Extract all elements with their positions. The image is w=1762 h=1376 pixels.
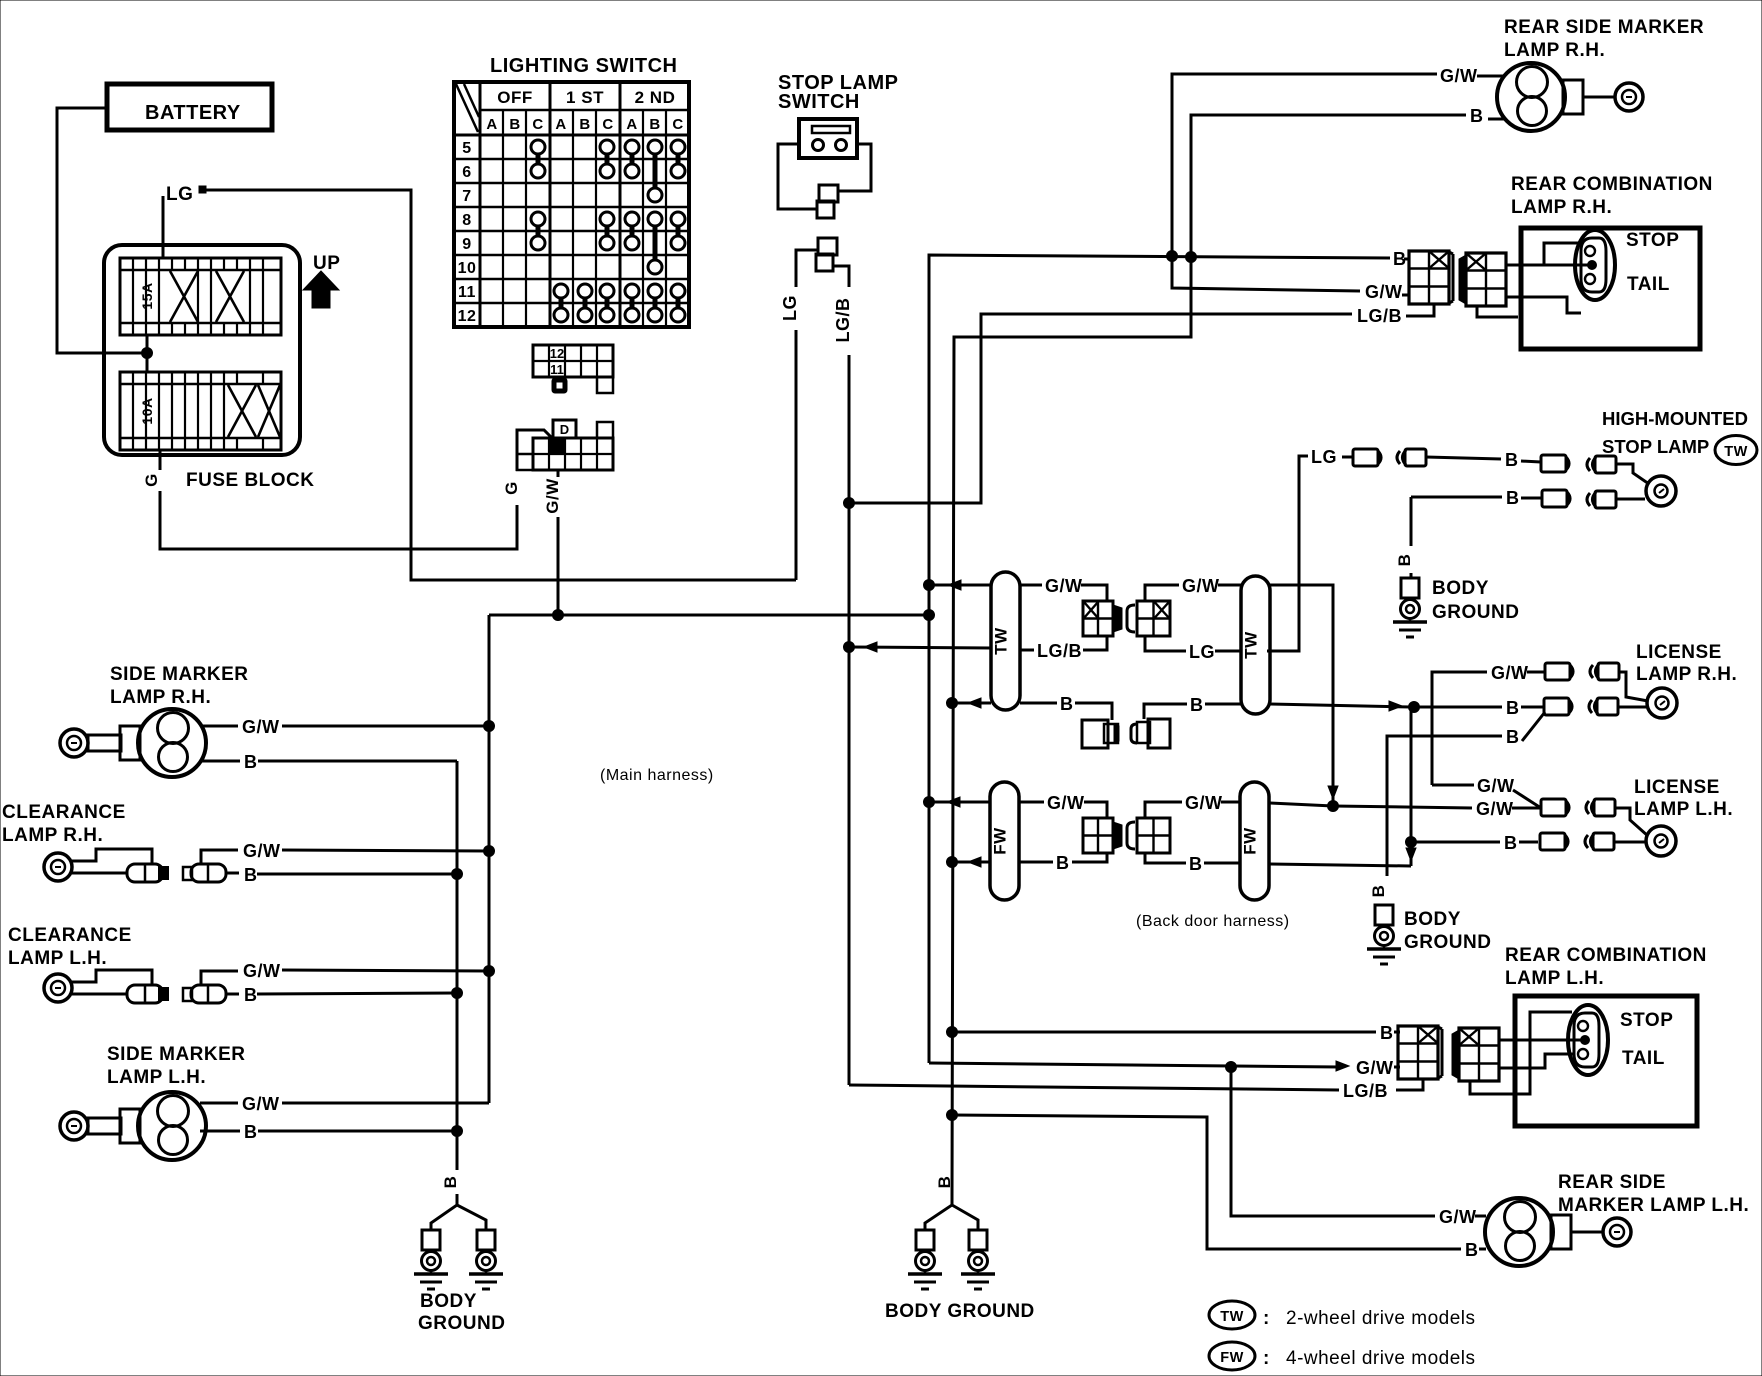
svg-text:G/W: G/W xyxy=(1477,776,1515,796)
svg-text:G/W: G/W xyxy=(1356,1058,1394,1078)
clearance lamp RH title xyxy=(2,802,126,846)
svg-text:2 ND: 2 ND xyxy=(635,88,676,107)
wire stop lamp switch left xyxy=(799,144,803,146)
svg-text:A: A xyxy=(626,116,637,133)
wire G/W to rear side marker LH xyxy=(1231,1067,1486,1227)
wire B license RH xyxy=(1414,698,1543,718)
junction G/W side marker RH xyxy=(484,721,495,732)
svg-text:12: 12 xyxy=(458,308,477,325)
TW harness connector pill 2 xyxy=(1241,576,1270,714)
svg-text:G/W: G/W xyxy=(1439,1207,1477,1227)
svg-text:G/W: G/W xyxy=(1185,793,1223,813)
TW harness connector pill 1 xyxy=(991,572,1020,710)
svg-text:8: 8 xyxy=(462,212,471,229)
svg-text:B: B xyxy=(1506,698,1520,718)
wire B FW block right to pill2 xyxy=(1145,853,1240,874)
svg-text:12: 12 xyxy=(550,346,564,361)
svg-text:B: B xyxy=(1470,106,1484,126)
wire G/W to FW pill1 xyxy=(929,797,990,807)
connector pair license RH B xyxy=(1544,698,1618,715)
svg-text:B: B xyxy=(1380,1023,1394,1043)
wire LG stop lamp xyxy=(780,250,818,580)
svg-text:C: C xyxy=(532,116,543,133)
svg-text:10: 10 xyxy=(458,260,477,277)
rear comb LH bulb socket xyxy=(1568,1005,1608,1075)
svg-text:STOP: STOP xyxy=(1626,230,1679,251)
rear comb LH internal wires xyxy=(1470,1012,1590,1094)
svg-text:B: B xyxy=(1190,695,1204,715)
wire G/W rear side marker RH xyxy=(1172,66,1505,291)
rear side marker lamp LH L9 xyxy=(1485,1198,1631,1266)
wire G/W split license RH xyxy=(1432,663,1544,808)
fuse row 10A xyxy=(120,372,281,450)
side marker lamp LH title xyxy=(107,1044,246,1088)
junction G/W clearance LH xyxy=(484,966,495,977)
svg-text:B: B xyxy=(1060,694,1074,714)
svg-text:LAMP R.H.: LAMP R.H. xyxy=(1636,664,1737,685)
wire B into comb RH block xyxy=(1404,258,1409,261)
svg-text:11: 11 xyxy=(550,362,564,377)
wire G/W to license lamps xyxy=(1333,799,1540,819)
wire LG/B stop lamp xyxy=(833,266,853,1085)
svg-text:B: B xyxy=(1504,833,1518,853)
left body ground bus B xyxy=(431,761,486,1231)
wire B TW pill1 to connector xyxy=(1020,694,1112,720)
svg-text:C: C xyxy=(602,116,613,133)
svg-text:G/W: G/W xyxy=(243,841,281,861)
wire B side marker RH xyxy=(200,752,457,772)
rear side marker LH title xyxy=(1558,1172,1749,1216)
junction B FW xyxy=(947,857,958,868)
svg-text:FW: FW xyxy=(991,827,1010,855)
wire high mount row2 to lamp xyxy=(1616,498,1645,501)
rear comb RH internal wires xyxy=(1477,243,1597,317)
svg-text:LAMP R.H.: LAMP R.H. xyxy=(1511,197,1612,218)
wire B FW pill1 to block xyxy=(1019,853,1107,873)
svg-text:LAMP L.H.: LAMP L.H. xyxy=(1634,799,1733,820)
body ground right upper G2 xyxy=(1393,578,1427,637)
svg-text:LAMP R.H.: LAMP R.H. xyxy=(110,687,211,708)
wire G/W FW block right to pill2 xyxy=(1145,793,1240,818)
svg-text:TW: TW xyxy=(992,627,1011,655)
svg-text:BODY: BODY xyxy=(1432,578,1489,599)
svg-text:LG: LG xyxy=(780,295,800,321)
junction G/W license xyxy=(1328,801,1339,812)
svg-text:SIDE MARKER: SIDE MARKER xyxy=(107,1044,246,1065)
wire G/W clearance LH xyxy=(243,961,489,981)
svg-text:G/W: G/W xyxy=(543,478,562,514)
license lamp LH title xyxy=(1634,777,1733,820)
stop lamp switch S1 xyxy=(799,119,857,158)
svg-text:B: B xyxy=(1465,1240,1479,1260)
wire G/W bus to rear comb LH xyxy=(929,1058,1400,1078)
svg-text:LAMP L.H.: LAMP L.H. xyxy=(107,1067,206,1088)
svg-text:B: B xyxy=(1506,488,1520,508)
clearance lamp LH title xyxy=(8,925,132,969)
wire B high mounted stop lamp row1 xyxy=(1426,450,1541,470)
TW connector block left xyxy=(1083,601,1122,636)
fuse row 15A xyxy=(120,258,281,335)
svg-text:G/W: G/W xyxy=(1047,793,1085,813)
svg-text:REAR COMBINATION: REAR COMBINATION xyxy=(1505,945,1707,966)
wire stop lamp switch right xyxy=(838,144,871,191)
svg-text:B: B xyxy=(509,116,520,133)
svg-text:LICENSE: LICENSE xyxy=(1634,777,1720,798)
svg-text:B: B xyxy=(244,985,258,1005)
wire B to TW pill1 xyxy=(952,698,991,708)
svg-text:CLEARANCE: CLEARANCE xyxy=(2,802,126,823)
wire B TW pill2 to license RH xyxy=(1270,701,1411,711)
svg-text:LG/B: LG/B xyxy=(1037,641,1082,661)
connector pair license RH GW xyxy=(1545,663,1619,680)
svg-text:SWITCH: SWITCH xyxy=(778,91,860,113)
wire fuse 15A to 10A xyxy=(146,335,149,372)
wire G/W clearance RH xyxy=(243,841,489,861)
connector grid lighting switch xyxy=(517,420,613,470)
svg-text:10A: 10A xyxy=(139,397,155,424)
wire LG TW block right to pill2 xyxy=(1145,636,1241,662)
svg-text:A: A xyxy=(555,116,566,133)
svg-text:LICENSE: LICENSE xyxy=(1636,642,1722,663)
junction G/W clearance RH xyxy=(484,846,495,857)
lighting switch table U2 xyxy=(454,82,689,327)
legend TW xyxy=(1209,1301,1476,1329)
wire license RH GW to lamp xyxy=(1618,672,1648,701)
junction B license LH xyxy=(1406,837,1417,848)
side marker lamp LH L4 xyxy=(60,1092,206,1160)
wire LG/B into block RH xyxy=(1406,304,1434,316)
wire B to body ground right upper xyxy=(1395,497,1414,578)
junction LG/B to TW connector xyxy=(844,642,855,653)
svg-text:GROUND: GROUND xyxy=(1432,602,1519,623)
wire LG/B riser to rear comb RH xyxy=(849,314,1352,503)
svg-text:B: B xyxy=(244,1122,258,1142)
svg-text:G/W: G/W xyxy=(1476,799,1514,819)
license lamp LH L8 xyxy=(1646,826,1676,856)
center body ground bus xyxy=(925,1176,978,1231)
wire G/W TW pill2 to junction xyxy=(1270,585,1338,806)
connector pair LG high mount xyxy=(1353,449,1426,466)
rear comb RH bulb socket xyxy=(1575,230,1615,300)
svg-text:BODY GROUND: BODY GROUND xyxy=(885,1301,1035,1322)
wire LG from fuse block xyxy=(163,184,796,580)
license lamp RH title xyxy=(1636,642,1737,685)
svg-text:B: B xyxy=(1505,450,1519,470)
svg-text:LAMP R.H.: LAMP R.H. xyxy=(2,825,103,846)
svg-text:TW: TW xyxy=(1220,1309,1244,1325)
svg-text:G/W: G/W xyxy=(1045,576,1083,596)
wire B license LH xyxy=(1411,833,1538,853)
wire G/W to TW pill1 xyxy=(929,580,991,590)
battery B1 xyxy=(107,84,272,130)
rear combination lamp LH title xyxy=(1505,945,1707,989)
wire B to rear side marker LH xyxy=(952,1115,1486,1260)
svg-text:G/W: G/W xyxy=(242,717,280,737)
junction G/W rear side marker LH xyxy=(1226,1062,1237,1073)
svg-text:6: 6 xyxy=(462,164,471,181)
svg-text:G/W: G/W xyxy=(1182,576,1220,596)
junction B rear comb LH xyxy=(947,1027,958,1038)
svg-text:FW: FW xyxy=(1220,1350,1244,1366)
wire B high mount row2 xyxy=(1411,488,1542,508)
svg-text:STOP: STOP xyxy=(1620,1010,1673,1031)
G/W bus riser xyxy=(929,255,1390,1063)
high mounted stop lamp title xyxy=(1602,408,1757,465)
svg-text:REAR SIDE: REAR SIDE xyxy=(1558,1172,1666,1193)
svg-text:LAMP L.H.: LAMP L.H. xyxy=(8,948,107,969)
svg-text:REAR COMBINATION: REAR COMBINATION xyxy=(1511,174,1713,195)
svg-text:HIGH-MOUNTED: HIGH-MOUNTED xyxy=(1602,408,1748,429)
FW harness connector pill 1 xyxy=(990,782,1019,900)
high mounted stop lamp L6 xyxy=(1646,476,1676,506)
body ground right upper label xyxy=(1432,578,1519,623)
svg-text:G/W: G/W xyxy=(1491,663,1529,683)
body ground left label xyxy=(418,1291,505,1334)
svg-text:LG/B: LG/B xyxy=(1343,1081,1388,1101)
main G/W bus junction xyxy=(553,610,564,621)
node G fuse output xyxy=(142,450,517,549)
svg-text:CLEARANCE: CLEARANCE xyxy=(8,925,132,946)
rear combination lamp LH box xyxy=(1515,996,1697,1126)
svg-text:LG/B: LG/B xyxy=(833,298,853,343)
clearance lamp LH L3 xyxy=(44,970,239,1003)
svg-text:G/W: G/W xyxy=(1440,66,1478,86)
clearance lamp RH L2 xyxy=(44,849,239,882)
svg-text:B: B xyxy=(244,752,258,772)
connector pair stop lamp switch xyxy=(817,185,838,218)
wire LG to high mounted stop lamp xyxy=(1267,447,1353,651)
body ground center G4 xyxy=(908,1230,995,1289)
body ground left G1 xyxy=(414,1230,503,1289)
junction B clearance LH xyxy=(452,988,463,999)
svg-text:STOP LAMP: STOP LAMP xyxy=(1602,436,1709,457)
svg-text:(Main harness): (Main harness) xyxy=(600,767,714,784)
svg-text:G/W: G/W xyxy=(1365,282,1403,302)
TW connector block right xyxy=(1127,601,1170,636)
wire B2 license RH to ground xyxy=(1369,712,1545,897)
svg-text:LG/B: LG/B xyxy=(1357,306,1402,326)
wire G/W side marker RH xyxy=(200,717,489,737)
TW B connector left xyxy=(1082,720,1119,748)
stop lamp switch title xyxy=(778,72,898,113)
wire license LH B to lamp xyxy=(1613,841,1646,844)
license lamp RH L7 xyxy=(1647,688,1677,718)
wire G/W FW pill1 to block xyxy=(1019,793,1107,818)
wire G to switch connector xyxy=(517,430,554,471)
wire G/W into comb RH block xyxy=(1402,294,1409,297)
rear comb RH connector blocks xyxy=(1409,251,1506,306)
svg-text:LG: LG xyxy=(1189,642,1215,662)
svg-text:4-wheel drive models: 4-wheel drive models xyxy=(1286,1348,1476,1369)
side marker lamp RH title xyxy=(110,664,249,708)
svg-text:LAMP L.H.: LAMP L.H. xyxy=(1505,968,1604,989)
svg-text:G/W: G/W xyxy=(242,1094,280,1114)
svg-text:7: 7 xyxy=(462,188,471,205)
svg-text::: : xyxy=(1263,1348,1270,1369)
junction B TW xyxy=(947,698,958,709)
svg-text:LAMP R.H.: LAMP R.H. xyxy=(1504,40,1605,61)
junction B rear side marker LH xyxy=(947,1110,958,1121)
wire G/W side marker LH xyxy=(200,1094,489,1114)
junction B side marker LH xyxy=(452,1126,463,1137)
svg-text:G: G xyxy=(142,473,161,487)
wire B to FW pill1 xyxy=(952,857,990,867)
junction B license RH xyxy=(1409,702,1420,713)
svg-text:TW: TW xyxy=(1242,631,1261,659)
svg-text:UP: UP xyxy=(313,253,340,274)
svg-text:TW: TW xyxy=(1724,444,1748,460)
svg-text:BODY: BODY xyxy=(420,1291,477,1312)
svg-text:9: 9 xyxy=(462,236,471,253)
svg-text:LG: LG xyxy=(1311,447,1337,467)
svg-text:LIGHTING SWITCH: LIGHTING SWITCH xyxy=(490,55,677,77)
svg-text:C: C xyxy=(672,116,683,133)
svg-text:B: B xyxy=(1056,853,1070,873)
junction battery/fuse block xyxy=(142,348,153,359)
svg-text:15A: 15A xyxy=(139,282,155,309)
svg-text:B: B xyxy=(1506,727,1520,747)
wire B side marker LH xyxy=(200,1122,457,1142)
svg-text:5: 5 xyxy=(462,140,471,157)
wire license RH B to lamp xyxy=(1617,706,1647,709)
svg-text:D: D xyxy=(560,422,569,437)
svg-text:B: B xyxy=(1189,854,1203,874)
svg-text:A: A xyxy=(486,116,497,133)
rear combination lamp RH box xyxy=(1521,228,1700,349)
svg-text:FW: FW xyxy=(1241,827,1260,855)
fuse block outline xyxy=(104,245,300,455)
body ground right lower label xyxy=(1404,909,1491,953)
wire LG/B to rear comb LH xyxy=(849,1079,1423,1101)
svg-text:B: B xyxy=(1369,885,1388,898)
wire G/W FW pill2 to junction xyxy=(1269,803,1333,806)
wire license LH GW to lamp xyxy=(1614,808,1648,836)
connector pair high mount row1 xyxy=(1541,455,1616,473)
side marker lamp RH L1 xyxy=(60,709,206,777)
FW harness connector pill 2 xyxy=(1240,782,1269,900)
svg-text:FUSE BLOCK: FUSE BLOCK xyxy=(186,470,315,491)
svg-text:(Back door harness): (Back door harness) xyxy=(1136,913,1290,930)
rear side marker lamp RH L5 xyxy=(1497,63,1643,131)
svg-text:BATTERY: BATTERY xyxy=(145,102,241,124)
svg-text:MARKER LAMP L.H.: MARKER LAMP L.H. xyxy=(1558,1195,1749,1216)
wire B to rear comb LH xyxy=(952,1023,1400,1043)
wire to high mounted lamp xyxy=(1616,464,1649,484)
junction G/W FW xyxy=(924,797,935,808)
junction G/W TW xyxy=(924,580,935,591)
svg-text:TAIL: TAIL xyxy=(1622,1048,1665,1069)
svg-text:GROUND: GROUND xyxy=(1404,932,1491,953)
svg-text:SIDE MARKER: SIDE MARKER xyxy=(110,664,249,685)
rear combination lamp RH title xyxy=(1511,174,1713,218)
svg-text:B: B xyxy=(1395,554,1414,567)
connector pair high mount row2 xyxy=(1542,490,1616,508)
legend FW xyxy=(1209,1342,1476,1370)
wire B clearance RH xyxy=(244,865,457,885)
junction B top xyxy=(1186,252,1197,263)
svg-text:2-wheel drive models: 2-wheel drive models xyxy=(1286,1308,1476,1329)
svg-text:B: B xyxy=(579,116,590,133)
connector pair license LH B xyxy=(1540,833,1614,850)
svg-text:LG: LG xyxy=(166,184,193,205)
svg-text::: : xyxy=(1263,1308,1270,1329)
svg-text:B: B xyxy=(935,1176,954,1189)
wire B rear side marker RH xyxy=(952,106,1505,1196)
svg-text:OFF: OFF xyxy=(497,88,533,107)
connector pair license LH GW xyxy=(1541,799,1615,816)
svg-text:BODY: BODY xyxy=(1404,909,1461,930)
svg-text:TAIL: TAIL xyxy=(1627,274,1670,295)
FW connector block left xyxy=(1083,818,1122,853)
junction B clearance RH xyxy=(452,869,463,880)
svg-text:B: B xyxy=(441,1176,460,1189)
wire B clearance LH xyxy=(244,985,457,1005)
junction G/W bus top xyxy=(1167,251,1178,262)
rear comb LH connector blocks xyxy=(1398,1026,1499,1081)
FW connector block right xyxy=(1127,818,1170,853)
wire G/W from lighting switch xyxy=(543,470,562,615)
junction LG/B branch rear lamp RH xyxy=(844,498,855,509)
svg-text:GROUND: GROUND xyxy=(418,1313,505,1334)
wire LG/B TW pill1 to block xyxy=(1020,636,1107,661)
svg-text:REAR SIDE MARKER: REAR SIDE MARKER xyxy=(1504,17,1704,38)
svg-text:G/W: G/W xyxy=(243,961,281,981)
wire G/W TW block right to pill2 xyxy=(1145,576,1241,601)
junction G/W bus main xyxy=(924,610,935,621)
svg-text:B: B xyxy=(649,116,660,133)
label UP with arrow xyxy=(303,253,340,308)
wire B FW pill2 to license LH xyxy=(1269,707,1416,866)
wire battery to fuse block xyxy=(57,108,147,353)
wire G/W TW pill1 to block xyxy=(1020,576,1107,601)
svg-text:1 ST: 1 ST xyxy=(566,88,604,107)
svg-text:G: G xyxy=(502,481,521,495)
wire B TW connector to pill2 xyxy=(1144,695,1241,719)
rear side marker RH title xyxy=(1504,17,1704,61)
connector grid 12/11 xyxy=(533,345,613,393)
TW B connector right xyxy=(1131,719,1170,748)
body ground right lower G3 xyxy=(1367,905,1401,964)
svg-text:B: B xyxy=(244,865,258,885)
wire main harness G/W bus xyxy=(489,615,928,1103)
wire LG/B to TW connector xyxy=(849,642,991,652)
connector pair harness xyxy=(816,238,837,271)
svg-text:11: 11 xyxy=(458,284,476,301)
